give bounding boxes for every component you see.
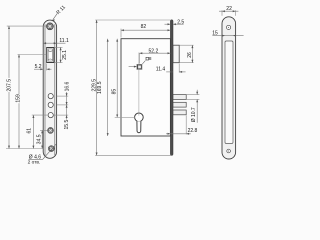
baseline extension through screw E — [6, 148, 43, 150]
hole C — [48, 113, 53, 118]
hole B — [48, 102, 53, 107]
screw D — [48, 127, 54, 133]
latch bolt protruding — [173, 45, 179, 63]
svg-text:16.6: 16.6 — [64, 81, 70, 91]
dimension 2.5 — [165, 23, 171, 25]
faceplate outline — [43, 20, 56, 158]
svg-text:52.2: 52.2 — [149, 49, 159, 55]
dimension 169.5 — [107, 39, 109, 136]
svg-text:22: 22 — [226, 6, 232, 12]
deadbolt prong 1 — [173, 95, 186, 100]
centreline through spindle and cylinder — [138, 53, 140, 116]
svg-text:169.5: 169.5 — [97, 81, 103, 94]
svg-text:26: 26 — [187, 52, 193, 58]
svg-text:R 11: R 11 — [55, 4, 67, 16]
label R 11 with leader — [53, 4, 67, 21]
svg-text:15: 15 — [212, 30, 218, 36]
spindle square hole — [137, 64, 142, 69]
lock body outline — [121, 39, 170, 136]
dimension 52.2 — [139, 52, 170, 54]
latch cutout in faceplate — [47, 48, 54, 63]
deadbolt prong 2 — [173, 102, 186, 107]
label D4.6 2 holes with leader — [28, 144, 56, 165]
svg-text:2.5: 2.5 — [177, 20, 184, 26]
extension strip bottom — [95, 154, 171, 156]
euro cylinder hole — [135, 113, 144, 133]
dimension D10.7 — [187, 94, 200, 96]
extension line through top screw centre — [7, 25, 47, 27]
svg-text:2 отв.: 2 отв. — [28, 160, 41, 166]
top screw hole with screw — [47, 23, 54, 30]
svg-text:82: 82 — [141, 24, 147, 30]
dimension 159 — [18, 55, 20, 95]
faceplate edge strip — [170, 20, 173, 156]
extension line latch axis — [18, 54, 47, 56]
dimension 22.8 — [185, 115, 187, 134]
dimension 25.1 — [54, 46, 63, 48]
dimension 82 — [120, 29, 122, 38]
extension line hole C — [32, 114, 48, 116]
label square 8 with leader — [142, 56, 152, 64]
svg-text:34.5: 34.5 — [37, 134, 43, 144]
svg-text:Ø 10.7: Ø 10.7 — [191, 107, 197, 122]
dimension 5.2 — [46, 64, 48, 71]
svg-text:15.5: 15.5 — [64, 120, 70, 130]
svg-text:22.8: 22.8 — [188, 128, 198, 134]
spindle hole width arrow — [129, 66, 137, 68]
svg-text:207.5: 207.5 — [6, 79, 12, 92]
svg-text:25.1: 25.1 — [62, 50, 68, 60]
dimension 229.5 — [96, 20, 98, 155]
extension line hole A — [57, 95, 68, 97]
dimension 61 — [32, 115, 34, 148]
dimension 34.5 — [41, 130, 43, 148]
dimension 207.5 — [8, 26, 10, 148]
extension line screw D — [40, 129, 48, 131]
extension strip top — [95, 19, 170, 21]
dimension 15 — [212, 35, 243, 37]
side bottom hole — [227, 149, 231, 153]
svg-text:61: 61 — [27, 128, 33, 134]
deadbolt prong 3 — [173, 110, 186, 115]
svg-text:5.2: 5.2 — [35, 64, 42, 70]
latch bolt face inside cutout — [48, 49, 52, 61]
svg-text:8: 8 — [149, 56, 152, 61]
side bar outline — [222, 17, 236, 159]
dimension 11.1 — [43, 42, 65, 44]
dimension 85 — [116, 39, 118, 118]
svg-text:11.1: 11.1 — [59, 38, 69, 44]
dimension 15.5 (between holes B and C) — [66, 102, 68, 105]
dimension 26 — [180, 44, 194, 46]
dimension 11.4 — [178, 64, 180, 73]
dimension 22 — [221, 10, 223, 16]
faceplate inner edge right — [54, 24, 56, 155]
extension line hole B — [57, 104, 68, 106]
side channel — [225, 41, 233, 143]
svg-text:85: 85 — [112, 89, 118, 95]
side top hole — [227, 25, 231, 29]
screw E — [48, 146, 54, 152]
hole A — [48, 94, 53, 99]
svg-text:11.4: 11.4 — [156, 66, 166, 72]
dimension 16.6 — [66, 92, 68, 120]
svg-text:159: 159 — [15, 94, 21, 103]
faceplate inner edge left — [44, 24, 46, 155]
